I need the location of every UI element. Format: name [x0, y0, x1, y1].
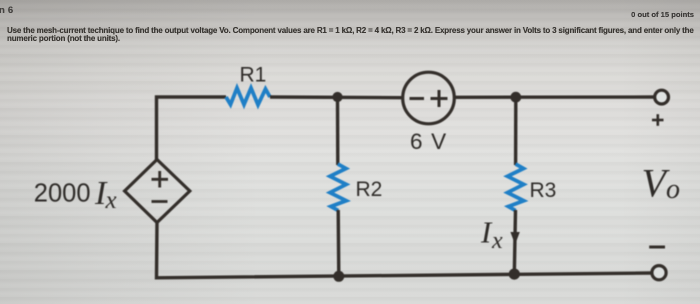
label Vo: [642, 161, 681, 206]
svg-text:R2: R2: [356, 178, 383, 201]
dependent source E1 (2000 Ix, diamond): [125, 160, 190, 223]
wire: R3 to bottom rail: [514, 210, 515, 274]
wire: dependent source bottom + bottom rail: [157, 223, 653, 278]
wire: voltage source to output terminal +: [454, 95, 655, 99]
svg-text:6 V: 6 V: [410, 129, 447, 154]
voltage source V1 6V: [403, 72, 455, 124]
minus sign at output: [649, 246, 665, 249]
output terminal + (open circle): [655, 90, 669, 104]
node D (junction R3 bottom): [509, 269, 520, 280]
wire: R1 to voltage source: [270, 95, 403, 99]
svg-text:R3: R3: [530, 179, 557, 202]
plus sign at output: [652, 114, 664, 126]
svg-text:x: x: [491, 228, 503, 254]
resistor R3: [508, 164, 524, 211]
svg-text:x: x: [105, 187, 117, 214]
node A (junction R2 top): [332, 92, 342, 102]
wire: R2 to bottom rail: [337, 210, 341, 276]
svg-text:2000: 2000: [34, 180, 91, 208]
output terminal - (open circle): [652, 266, 666, 280]
label Ix (controlling current): [480, 215, 503, 254]
wire: dependent source top to top-left corner to R1: [157, 97, 227, 160]
current arrow Ix (down): [510, 232, 519, 245]
node B (junction R3 top): [510, 92, 521, 103]
node C (junction R2 bottom): [333, 271, 344, 282]
label 2000 Ix: [34, 175, 117, 214]
svg-text:R1: R1: [240, 64, 267, 87]
wire: R3 branch top: [514, 97, 518, 165]
wire: R2 branch top: [336, 97, 340, 165]
resistor R2: [330, 164, 346, 211]
svg-text:o: o: [666, 174, 680, 205]
resistor R1: [226, 88, 270, 105]
